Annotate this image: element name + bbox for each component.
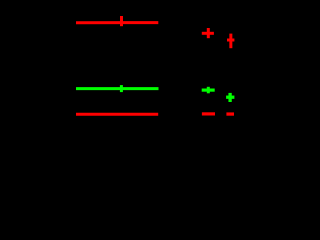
red point 6: x-error dash [226,112,234,115]
green point 1: y-error tick [120,85,123,92]
red point 3: x-error bar [227,39,234,42]
red point 1: wide-bin x-error bar [76,21,158,24]
green point 3: x-error bar [226,96,234,99]
plot background [0,0,241,172]
green point 2: y-error tick [207,87,210,94]
red point 2: y-error bar [207,28,210,38]
green point 3: y-error bar [228,93,231,102]
red point 2: x-error bar [202,32,214,35]
red point 4: wide-bin x-error bar (y error smaller than line width) [76,113,158,116]
red point 1: y-error tick [120,16,123,26]
green point 1: wide-bin x-error bar [76,87,159,90]
red point 5: x-error dash [202,112,215,115]
red point 3: y-error bar [229,34,232,49]
green point 2: x-error bar [202,88,215,91]
